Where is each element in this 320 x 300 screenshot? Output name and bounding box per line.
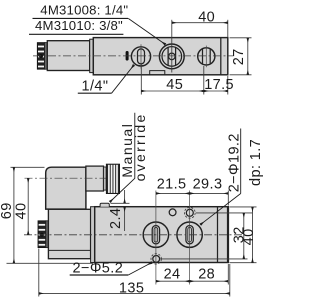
svg-text:1/4": 1/4" [82, 79, 109, 95]
dimension 135 [39, 249, 230, 297]
port P3 [198, 46, 215, 68]
port P1 (1/4" port) [131, 44, 150, 68]
dimension 45 / 17.5 (below top view) [141, 64, 228, 95]
center line (bottom view) [24, 234, 242, 236]
dimension 32 (right) [160, 213, 253, 259]
dimension 40 (left) [27, 178, 29, 235]
knob flange (bottom view) [46, 221, 49, 248]
connector neck [86, 166, 104, 191]
dimension 40 (top) [172, 20, 228, 73]
svg-text:29.3: 29.3 [193, 176, 223, 192]
port center line S1 [155, 191, 157, 285]
coil block [48, 209, 90, 258]
dark mark left of port P1 [126, 51, 129, 61]
svg-text:45: 45 [166, 77, 183, 93]
leader 5.2 to hole C [128, 263, 152, 276]
ring between cylinder and body [90, 39, 94, 72]
small hole top B with dashed circle [186, 209, 193, 216]
underline rotated label [240, 129, 242, 194]
svg-text:28: 28 [198, 266, 215, 282]
coil base line [48, 249, 90, 251]
svg-text:40: 40 [241, 228, 257, 245]
svg-text:21.5: 21.5 [157, 176, 187, 192]
knob flange (top view) [45, 43, 48, 70]
port center line S2 [189, 191, 191, 285]
dimension 69 [7, 167, 94, 263]
end cap line (bottom view) [217, 207, 219, 263]
leader manual override [110, 113, 135, 202]
svg-text:2−Φ5.2: 2−Φ5.2 [73, 261, 124, 277]
svg-text:27: 27 [231, 48, 247, 65]
knurled knob (bottom view) [38, 221, 46, 248]
svg-text:40: 40 [198, 9, 215, 25]
dimension 2.4 (override bump height) [111, 190, 130, 231]
svg-text:2.4: 2.4 [108, 208, 124, 229]
end cap line (top view) [220, 38, 222, 75]
svg-text:2−Φ19.2: 2−Φ19.2 [226, 133, 242, 192]
underline label 2 [29, 33, 123, 35]
svg-text:40: 40 [14, 203, 30, 220]
port S2 (side view large port) [177, 222, 202, 247]
bottom notch (top view) [150, 71, 165, 75]
port S1 (side view large port) [143, 222, 168, 247]
dimension 27 (right of top view) [230, 38, 252, 75]
connector gland (ribbed) [106, 164, 120, 194]
dimension 40 (right) [230, 207, 257, 263]
port P2 (3/8" port) [159, 44, 184, 69]
connector box [46, 167, 86, 209]
svg-text:4M31010: 3/8": 4M31010: 3/8" [35, 18, 123, 33]
svg-text:24: 24 [164, 266, 181, 282]
manual override bump [100, 203, 109, 206]
valve body (bottom view) [95, 207, 229, 263]
small hole top A [169, 209, 176, 216]
leader 19.2 to port S2 [200, 194, 240, 225]
center line (top view) [33, 55, 233, 57]
thick right edge [227, 206, 229, 263]
svg-text:17.5: 17.5 [204, 77, 234, 93]
plug axis line [25, 177, 107, 179]
solenoid cylinder (top view) [47, 41, 89, 71]
valve body (top view) [93, 38, 228, 75]
interface plate between coil and body [91, 207, 95, 263]
svg-text:135: 135 [119, 280, 144, 296]
dimension 21.5 / 29.3 [156, 191, 228, 206]
underline label 1 [33, 17, 129, 19]
small hole bottom C with dashed circle [153, 256, 160, 263]
leader from label to port P2 [128, 18, 165, 44]
knurled knob (top view) [37, 43, 44, 70]
dimension 24 / 28 [156, 264, 228, 285]
svg-text:dp: 1.7: dp: 1.7 [248, 139, 264, 186]
svg-text:4M31008: 1/4": 4M31008: 1/4" [40, 3, 128, 18]
connector groove [104, 167, 107, 190]
